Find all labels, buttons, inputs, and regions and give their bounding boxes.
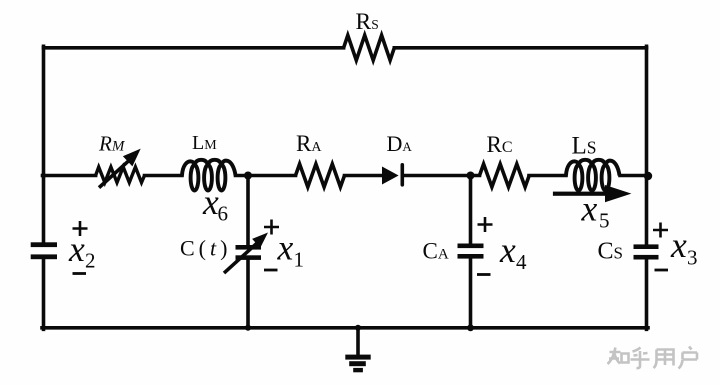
minus of x2 xyxy=(73,272,87,275)
wire middle branch lower xyxy=(246,260,250,328)
resistor RS xyxy=(344,35,395,60)
arrow of C(t) xyxy=(223,233,268,275)
node B (CA junction) xyxy=(467,172,475,180)
wire right vertical upper xyxy=(645,46,649,244)
svg-text:1: 1 xyxy=(294,248,305,272)
svg-text:CA: CA xyxy=(423,239,449,264)
minus of x3 xyxy=(655,269,669,272)
svg-text:RC: RC xyxy=(487,132,513,157)
capacitor CA xyxy=(458,244,484,259)
svg-text:LS: LS xyxy=(572,133,597,160)
svg-text:x: x xyxy=(670,225,687,265)
svg-text:5: 5 xyxy=(599,209,610,233)
wire CA branch lower xyxy=(469,259,473,328)
wire DA to node B xyxy=(404,174,480,178)
diode DA xyxy=(382,167,399,185)
wire left vertical lower xyxy=(42,259,46,329)
svg-text:RA: RA xyxy=(296,131,322,156)
capacitor CS xyxy=(634,244,659,259)
resistor RA xyxy=(296,164,345,187)
wire right vertical lower xyxy=(645,260,649,330)
svg-text:x: x xyxy=(202,182,219,222)
node C (right junction) xyxy=(644,172,652,180)
wire top-right segment xyxy=(394,46,646,50)
arrow x5 (current direction) xyxy=(553,185,632,202)
svg-text:3: 3 xyxy=(687,246,698,270)
watermark 知乎用户 xyxy=(608,347,698,369)
svg-text:RS: RS xyxy=(356,9,379,35)
svg-text:x: x xyxy=(68,229,85,269)
wire LS to right xyxy=(620,174,647,178)
wire ground stem xyxy=(356,328,360,355)
plus of x1 xyxy=(264,220,279,235)
svg-text:DA: DA xyxy=(387,131,413,156)
svg-text:CS: CS xyxy=(598,239,623,265)
node E (middle branch bottom) xyxy=(245,325,251,331)
plus of x3 xyxy=(653,223,668,238)
ground xyxy=(345,355,370,373)
inductor LS xyxy=(566,160,620,191)
arrow of RM xyxy=(98,149,141,189)
wire middle left to RM xyxy=(43,174,96,178)
node G (ground junction) xyxy=(355,325,361,331)
wire RM to LM xyxy=(145,174,183,178)
capacitor x2 xyxy=(31,242,57,259)
plus of x2 xyxy=(73,221,88,236)
wire RA to DA xyxy=(345,174,383,178)
node D (left junction) xyxy=(41,173,46,178)
wire LM to RA xyxy=(236,174,296,178)
resistor RC xyxy=(480,164,530,187)
wire middle branch upper xyxy=(246,176,250,245)
svg-text:x: x xyxy=(581,189,598,229)
node F (CA branch bottom) xyxy=(467,324,474,331)
wire RC to LS xyxy=(529,174,566,178)
svg-text:6: 6 xyxy=(218,202,229,226)
svg-text:x: x xyxy=(277,228,294,268)
svg-text:x: x xyxy=(499,230,516,270)
minus of x4 xyxy=(477,273,491,276)
svg-text:LM: LM xyxy=(192,132,217,154)
svg-text:RM: RM xyxy=(98,132,126,156)
resistor RM (variable) xyxy=(96,167,145,183)
wire CA branch upper xyxy=(469,176,473,244)
wire top-left segment xyxy=(44,46,344,50)
svg-text:2: 2 xyxy=(85,249,96,273)
svg-text:4: 4 xyxy=(516,250,527,274)
svg-text:C(t): C(t) xyxy=(180,236,231,261)
node A (after LM) xyxy=(244,172,252,180)
inductor LM xyxy=(182,160,236,191)
wire bottom xyxy=(42,326,648,330)
plus of x4 xyxy=(478,217,493,232)
capacitor C(t) (variable) xyxy=(236,245,262,260)
wire left vertical upper xyxy=(42,46,46,242)
minus of x1 xyxy=(264,269,278,272)
